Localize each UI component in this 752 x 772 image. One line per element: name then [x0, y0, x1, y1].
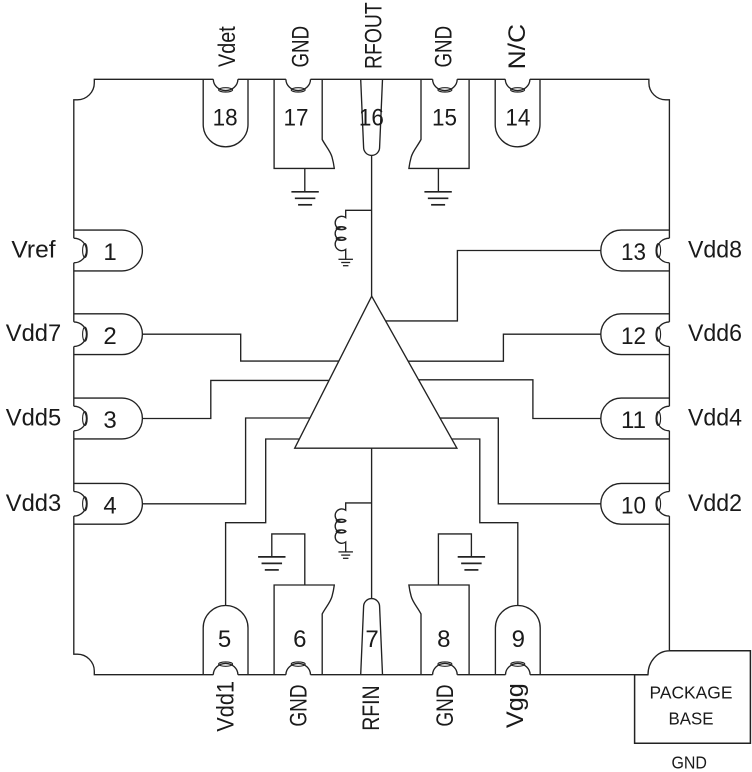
- inductor L1 (output bias choke): [335, 210, 371, 259]
- pin lead pin 14: [495, 79, 540, 147]
- wire pin13 Vdd8 to amplifier: [386, 251, 601, 321]
- svg-text:13: 13: [621, 239, 646, 266]
- svg-text:RFOUT: RFOUT: [360, 2, 387, 69]
- pin lead pin 11: [601, 398, 670, 439]
- ground symbol pin 8: [458, 556, 485, 558]
- svg-text:BASE: BASE: [669, 709, 714, 729]
- svg-text:Vgg: Vgg: [502, 683, 529, 728]
- pin 17 GND flag shape: [274, 79, 334, 168]
- pin 16 RFOUT lead: [361, 79, 383, 155]
- svg-text:PACKAGE: PACKAGE: [650, 683, 733, 703]
- solder dimple pin 17: [286, 78, 311, 91]
- wire pin2 Vdd7 to amplifier: [142, 334, 338, 361]
- pin lead pin 5: [203, 606, 248, 675]
- pin 6 GND flag shape: [274, 585, 334, 675]
- solder dimple pin 4: [73, 491, 87, 516]
- wire pin5 Vdd1 to amplifier: [226, 439, 300, 606]
- svg-text:Vdd4: Vdd4: [688, 405, 742, 432]
- pin lead pin 3: [74, 398, 143, 439]
- svg-text:3: 3: [103, 407, 116, 434]
- wire pin10 Vdd2 to amplifier: [440, 418, 601, 504]
- solder dimple pin 8: [433, 663, 458, 676]
- svg-text:GND: GND: [671, 753, 707, 772]
- svg-text:16: 16: [359, 105, 384, 132]
- solder dimple pin 18: [213, 78, 238, 91]
- svg-text:GND: GND: [287, 26, 314, 68]
- svg-text:5: 5: [218, 626, 231, 653]
- pin lead pin 13: [601, 230, 670, 271]
- op-amp / amplifier triangle A1: [295, 296, 457, 448]
- svg-text:8: 8: [437, 626, 450, 653]
- svg-text:Vdd3: Vdd3: [6, 490, 62, 517]
- pin 8 ground wire: [438, 534, 471, 585]
- package body outline U1: [74, 79, 670, 674]
- pin 6 ground wire: [272, 534, 305, 585]
- solder dimple pin 13: [657, 238, 671, 263]
- svg-text:Vdd1: Vdd1: [212, 681, 239, 732]
- svg-text:GND: GND: [285, 684, 312, 726]
- solder dimple pin 3: [73, 406, 87, 431]
- svg-text:14: 14: [505, 105, 530, 132]
- pin 7 RFIN lead: [361, 599, 383, 675]
- wire RFIN pin7 to amplifier base: [371, 448, 373, 598]
- solder dimple pin 9: [506, 663, 531, 675]
- solder dimple pin 12: [657, 322, 671, 347]
- pin lead pin 9: [495, 606, 540, 675]
- pin lead pin 1: [74, 230, 143, 271]
- svg-text:Vdd2: Vdd2: [688, 490, 742, 517]
- solder dimple pin 14: [505, 78, 530, 91]
- svg-text:Vref: Vref: [11, 237, 55, 264]
- svg-text:Vdd6: Vdd6: [688, 320, 742, 347]
- svg-text:N/C: N/C: [504, 24, 531, 70]
- pin lead pin 12: [601, 314, 670, 355]
- svg-text:Vdd8: Vdd8: [688, 237, 742, 264]
- wire pin11 Vdd4 to amplifier: [419, 380, 601, 419]
- pin lead pin 4: [74, 483, 143, 524]
- solder dimple pin 1: [73, 238, 87, 263]
- svg-text:Vdet: Vdet: [214, 26, 241, 67]
- wire pin12 Vdd6 to amplifier: [408, 334, 601, 361]
- package base (paddle) box: [635, 651, 751, 743]
- wire pin3 Vdd5 to amplifier: [142, 380, 329, 418]
- pin 17 ground stem wire: [304, 168, 306, 191]
- svg-text:Vdd7: Vdd7: [6, 320, 62, 347]
- solder dimple pin 6: [286, 663, 311, 676]
- svg-text:4: 4: [103, 493, 116, 520]
- svg-text:18: 18: [213, 105, 238, 132]
- svg-text:GND: GND: [432, 684, 459, 726]
- solder dimple pin 10: [657, 491, 671, 516]
- ground symbol pin 6: [258, 556, 285, 558]
- wire pin9 Vgg to amplifier: [452, 439, 518, 606]
- wire pin4 Vdd3 to amplifier: [142, 418, 309, 504]
- ground symbol L1: [338, 258, 353, 260]
- pin 8 GND flag shape: [409, 585, 469, 675]
- ground symbol pin 15: [424, 191, 451, 193]
- svg-text:11: 11: [621, 407, 646, 434]
- svg-text:2: 2: [103, 323, 116, 350]
- pin lead pin 18: [203, 79, 248, 147]
- ground symbol pin 17: [291, 191, 318, 193]
- wire RFOUT pin16 to amplifier apex: [371, 155, 373, 296]
- solder dimple pin 15: [433, 78, 458, 91]
- svg-text:10: 10: [621, 493, 646, 520]
- svg-text:Vdd5: Vdd5: [6, 405, 62, 432]
- pin 15 GND flag shape: [409, 79, 469, 168]
- svg-text:9: 9: [512, 626, 525, 653]
- svg-text:17: 17: [284, 105, 309, 132]
- svg-text:6: 6: [293, 626, 306, 653]
- inductor L2 (input bias choke): [335, 503, 371, 552]
- ground symbol L2: [338, 551, 353, 553]
- pin lead pin 10: [601, 483, 670, 524]
- svg-text:7: 7: [365, 626, 378, 653]
- svg-text:12: 12: [621, 323, 646, 350]
- svg-text:GND: GND: [430, 26, 457, 68]
- svg-text:RFIN: RFIN: [358, 685, 385, 730]
- pin 15 ground stem wire: [437, 168, 439, 191]
- solder dimple pin 2: [73, 322, 87, 347]
- svg-text:1: 1: [103, 239, 116, 266]
- solder dimple pin 5: [213, 663, 238, 676]
- pin lead pin 2: [74, 314, 143, 355]
- solder dimple pin 11: [657, 406, 671, 431]
- svg-text:15: 15: [432, 105, 457, 132]
